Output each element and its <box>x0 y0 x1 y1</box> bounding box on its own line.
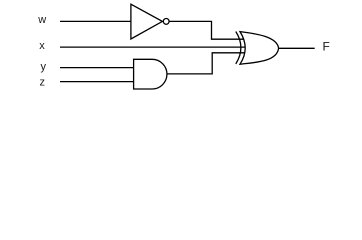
svg-text:z: z <box>40 77 46 89</box>
svg-text:F: F <box>323 39 330 53</box>
svg-text:x: x <box>39 40 45 52</box>
svg-text:w: w <box>37 14 46 26</box>
svg-text:y: y <box>40 61 46 73</box>
